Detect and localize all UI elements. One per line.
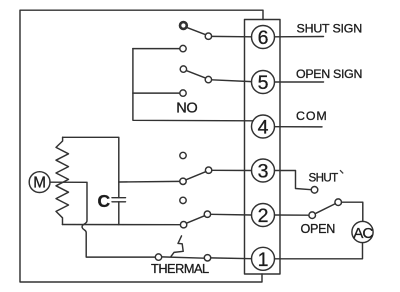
label NO [176,100,197,116]
wire: terminal 1 to AC bottom [275,243,363,258]
wire: terminal 3 to SHUT contact [275,171,312,190]
cam switch S4 spare contact [180,197,186,203]
terminal 1 digit [258,249,269,271]
tick mark after SHUT [340,170,343,173]
cam switch S2 lower contact [180,90,186,96]
wire: terminal 5 to OPEN SIGN lead [275,81,324,83]
svg-text:4: 4 [258,117,269,139]
SHUT contact terminal circle [311,187,318,194]
wire: S3 contact to terminal 3 [212,169,252,171]
motor M1 circle [29,172,50,193]
motor M label [33,175,46,192]
wire: S4 common to resistor bottom [62,224,180,226]
terminal strip box [245,20,281,275]
terminal 2 digit [258,205,269,227]
svg-text:6: 6 [258,27,269,49]
label COM [296,109,328,123]
svg-text:M: M [33,175,46,192]
cam switch S1 common (bold dot) [180,22,187,29]
terminal 6 digit [258,27,269,49]
svg-text:SHUT SIGN: SHUT SIGN [297,21,362,35]
wire: terminal 6 to SHUT SIGN lead [275,36,324,38]
capacitor C1 bottom plate [112,201,126,203]
svg-text:AC: AC [353,225,373,242]
thermal switch actuator meander [171,236,183,257]
terminal 3 digit [258,161,269,183]
wire: S2 contact to terminal 5 [212,80,252,82]
cam switch S3 blade [186,172,206,180]
terminal 5 digit [258,72,269,94]
enclosure frame wire [20,10,263,282]
wire: S2 upper contact to NO bus [133,48,180,50]
svg-text:OPEN SIGN: OPEN SIGN [296,67,362,81]
wire: terminal 4 to COM lead [275,126,323,128]
label C (capacitor value) [98,191,111,211]
svg-text:1: 1 [258,249,269,271]
svg-text:OPEN: OPEN [301,222,336,236]
terminal 1 circle [252,247,275,270]
AC source label [353,225,373,242]
wire: S2 lower contact to NO bus [133,92,180,94]
svg-text:5: 5 [258,72,269,94]
resistor winding R1 zigzag [56,137,69,224]
wire: resistor top loop to capacitor branch [63,137,119,197]
cam switch S4 contact [204,211,210,217]
svg-text:C: C [98,191,111,211]
cam switch S2 upper contact [180,45,186,51]
svg-text:SHUT: SHUT [309,172,339,185]
label SHUT [309,172,339,185]
OPEN switch blade [315,204,335,214]
terminal 6 circle [252,26,275,49]
wire: thermal switch to terminal 1 [211,257,252,260]
label OPEN SIGN [296,67,362,81]
label OPEN [301,222,336,236]
OPEN switch left contact [309,212,316,219]
terminal 4 digit [258,117,269,139]
wire: S3 common to capacitor node [119,180,180,183]
wire: capacitor bottom to S4 common bus [118,202,120,225]
OPEN switch right contact [335,199,342,206]
wire: S4 contact to terminal 2 [211,213,252,216]
cam switch S3 common contact [180,178,186,184]
thermal switch left contact [155,254,161,260]
svg-text:COM: COM [296,109,328,123]
svg-text:NO: NO [176,100,197,116]
cam switch S1 blade [186,27,205,34]
thermal switch right contact [204,255,210,261]
thermal switch blade [162,257,205,258]
label SHUT SIGN [297,21,362,35]
wire: S1 contact to terminal 6 [212,35,252,37]
terminal 4 circle [252,115,275,138]
cam switch S3 spare contact [180,152,186,158]
cam switch S2 common contact [180,66,186,72]
AC source circle [352,221,373,242]
svg-text:2: 2 [258,205,269,227]
wire: OPEN switch to AC top [342,202,363,221]
wire: motor to thermal switch with crossover jog [50,182,155,257]
label THERMAL [151,261,209,276]
cam switch S1 contact [205,33,211,39]
terminal 2 circle [252,204,275,227]
svg-text:3: 3 [258,161,269,183]
cam switch S2 blade [186,71,205,79]
svg-text:THERMAL: THERMAL [151,261,209,276]
capacitor C1 top plate [112,197,126,199]
cam switch S4 blade [187,216,205,224]
terminal 3 circle [252,159,275,182]
cam switch S3 contact [205,167,211,173]
wire: terminal 2 to OPEN switch [275,214,309,216]
terminal 5 circle [252,71,275,94]
cam switch S2 contact to terminal 5 [205,76,211,82]
cam switch S4 common contact [180,222,186,228]
wire: NO bus vertical to terminal 4 [133,49,253,121]
